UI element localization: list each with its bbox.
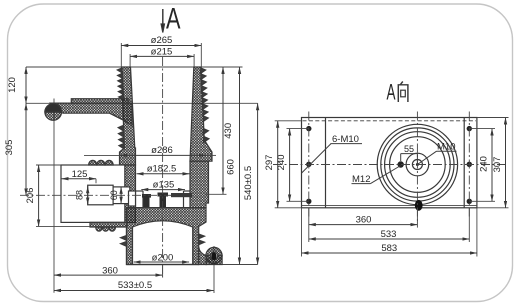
svg-text:583: 583 [381,243,397,254]
svg-text:305: 305 [4,140,15,156]
svg-text:55: 55 [404,144,414,154]
svg-text:ø135: ø135 [153,180,175,191]
svg-text:88: 88 [74,190,84,200]
svg-text:240: 240 [479,156,490,172]
svg-text:297: 297 [264,155,275,171]
svg-text:125: 125 [72,169,88,180]
svg-text:660: 660 [226,159,237,175]
svg-text:206: 206 [25,188,36,204]
svg-text:A: A [387,80,396,105]
svg-text:360: 360 [102,265,118,276]
svg-text:430: 430 [223,123,234,139]
svg-text:540±0.5: 540±0.5 [243,166,254,200]
svg-text:ø200: ø200 [152,252,174,263]
svg-text:ø215: ø215 [151,47,173,58]
svg-text:307: 307 [492,157,503,173]
svg-text:60: 60 [109,190,119,200]
svg-text:533: 533 [381,229,397,240]
svg-text:M10: M10 [437,142,455,153]
svg-text:533±0.5: 533±0.5 [118,280,152,291]
svg-text:120: 120 [7,77,18,93]
svg-text:6-M10: 6-M10 [332,134,359,145]
svg-text:360: 360 [356,215,372,226]
svg-text:ø286: ø286 [151,145,173,156]
svg-text:ø182.5: ø182.5 [147,164,177,175]
svg-text:A: A [166,3,181,36]
svg-text:M12: M12 [352,174,370,185]
svg-text:ø265: ø265 [151,35,173,46]
svg-text:240: 240 [276,154,287,170]
